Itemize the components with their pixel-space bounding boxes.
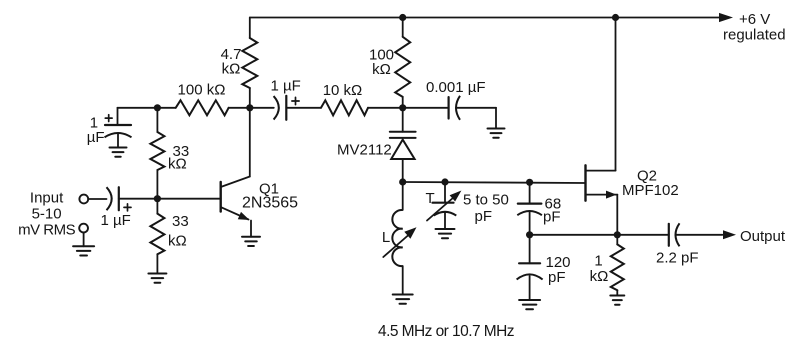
svg-text:kΩ: kΩ xyxy=(590,268,609,285)
ground 120 pF xyxy=(519,300,540,309)
resistor 33 kohm upper xyxy=(150,108,164,199)
plus sign coupling cap xyxy=(292,97,299,104)
svg-text:1 µF: 1 µF xyxy=(271,78,301,95)
capacitor 1 uF input xyxy=(107,187,119,210)
svg-text:5-10: 5-10 xyxy=(32,206,62,223)
svg-text:L: L xyxy=(382,229,390,246)
ground trimmer xyxy=(436,229,455,238)
junction varactor bias node xyxy=(399,104,406,111)
Q2 drain lead xyxy=(586,18,616,171)
svg-text:Input: Input xyxy=(30,190,64,207)
ground bypass cap xyxy=(110,148,127,157)
junction bias node xyxy=(154,104,161,111)
label 68 pF xyxy=(543,195,561,225)
capacitor 1 uF coupling xyxy=(274,96,287,120)
junction tank-trimmer xyxy=(441,178,448,185)
resistor 1 kohm xyxy=(611,235,624,296)
plus sign input cap xyxy=(124,204,131,211)
label L xyxy=(382,229,390,246)
wire collector node to coupling cap xyxy=(250,107,274,109)
wire 0.001uF to ground xyxy=(456,108,496,129)
svg-text:MPF102: MPF102 xyxy=(622,182,679,199)
wire 10k to varactor node xyxy=(368,107,403,109)
junction rail-100k xyxy=(399,14,406,21)
svg-text:1: 1 xyxy=(594,253,602,270)
junction base node xyxy=(154,195,161,202)
label 1 uF bypass xyxy=(87,115,105,147)
junction tank node xyxy=(399,178,406,185)
label 100 kohm horizontal xyxy=(178,82,226,99)
svg-text:kΩ: kΩ xyxy=(222,61,241,78)
+6V arrow terminal xyxy=(719,13,733,22)
wire bias node to bypass cap xyxy=(118,108,158,125)
label 4.7 kohm xyxy=(221,46,242,78)
label Q2 xyxy=(637,167,657,184)
svg-text:kΩ: kΩ xyxy=(168,233,187,250)
svg-text:0.001 µF: 0.001 µF xyxy=(426,79,486,96)
svg-text:5 to 50: 5 to 50 xyxy=(463,191,509,208)
label Q1 xyxy=(259,181,279,198)
arrow inductor adjust xyxy=(383,227,416,257)
label Output xyxy=(740,228,786,245)
label 33 kohm upper xyxy=(168,143,189,173)
svg-text:pF: pF xyxy=(548,269,566,286)
label Input 5-10 mV RMS xyxy=(18,190,75,239)
svg-text:+6 V: +6 V xyxy=(739,11,770,28)
label 1 uF input xyxy=(101,212,131,229)
svg-text:100 kΩ: 100 kΩ xyxy=(178,82,226,99)
label +6 V xyxy=(739,11,770,28)
junction 68-120 node xyxy=(526,231,533,238)
ground 33 kohm xyxy=(148,274,166,283)
input terminal bottom xyxy=(79,224,88,233)
svg-text:MV2112: MV2112 xyxy=(337,142,392,159)
resistor 10 kohm xyxy=(321,100,368,115)
Q1 collector lead xyxy=(221,108,250,187)
junction rail-drain xyxy=(612,14,619,21)
label 4.5 MHz or 10.7 MHz xyxy=(378,323,514,340)
label 1 uF coupling xyxy=(271,78,301,95)
resistor 100 kohm (varactor bias) xyxy=(395,18,410,108)
resistor 100 kohm (feedback) xyxy=(176,100,229,115)
svg-text:mV RMS: mV RMS xyxy=(18,221,75,238)
svg-text:kΩ: kΩ xyxy=(372,61,391,78)
label MV2112 xyxy=(337,142,392,159)
svg-text:regulated: regulated xyxy=(723,27,786,44)
wire bias to 100k xyxy=(157,107,175,109)
capacitor 2.2 pF xyxy=(669,223,680,246)
svg-text:Output: Output xyxy=(740,228,786,245)
trimmer capacitor T 5-50 pF xyxy=(433,182,457,229)
svg-text:pF: pF xyxy=(475,208,493,225)
arrow trimmer adjust xyxy=(427,191,461,221)
svg-text:10 kΩ: 10 kΩ xyxy=(323,82,363,99)
junction tank-68pF xyxy=(526,179,533,186)
capacitor 1 uF bypass (base bias) xyxy=(105,125,132,148)
plus sign bypass cap xyxy=(105,115,112,122)
transistor Q2 MPF102 channel bar xyxy=(584,165,586,200)
label MPF102 xyxy=(622,182,679,199)
transistor Q1 2N3565 base bar xyxy=(219,182,221,212)
label 100 kohm vertical xyxy=(369,46,394,78)
svg-text:µF: µF xyxy=(87,129,105,146)
junction source-1k node xyxy=(614,231,621,238)
svg-text:4.5 MHz or 10.7 MHz: 4.5 MHz or 10.7 MHz xyxy=(378,323,514,340)
capacitor 68 pF xyxy=(517,182,542,235)
svg-text:T: T xyxy=(426,190,435,207)
svg-text:1 µF: 1 µF xyxy=(101,212,131,229)
resistor 33 kohm lower xyxy=(150,199,164,274)
wire output node row xyxy=(530,234,669,236)
label 33 kohm lower xyxy=(168,213,189,250)
wire output cap to arrow xyxy=(676,234,723,236)
ground inductor xyxy=(393,295,413,304)
svg-text:pF: pF xyxy=(543,209,561,226)
label 1 kohm xyxy=(590,253,609,286)
ground 0.001uF xyxy=(488,129,505,138)
label 5 to 50 pF xyxy=(463,191,509,225)
wire input cap to base node xyxy=(119,198,158,200)
junction collector node xyxy=(246,104,253,111)
wire 100k to collector node xyxy=(229,107,250,109)
wire input terminal to cap xyxy=(88,198,106,200)
svg-text:2N3565: 2N3565 xyxy=(242,195,298,212)
ground 1 kohm xyxy=(610,296,624,305)
label 0.001 uF xyxy=(426,79,486,96)
ground input terminal xyxy=(73,233,94,256)
ground Q1 emitter xyxy=(242,237,260,246)
resistor 4.7 kohm xyxy=(242,18,257,108)
label T xyxy=(426,190,435,207)
svg-text:33: 33 xyxy=(172,213,189,230)
varactor diode MV2112 xyxy=(390,108,416,182)
wire +6V supply rail xyxy=(250,17,720,19)
capacitor 0.001 uF xyxy=(449,96,460,120)
svg-text:kΩ: kΩ xyxy=(168,156,187,173)
wire coupling cap to 10k xyxy=(286,107,321,109)
wire tank row xyxy=(403,182,586,183)
label 120 pF xyxy=(546,254,571,286)
wire varactor node to 0.001uF xyxy=(403,107,449,109)
output arrow terminal xyxy=(723,230,736,239)
input terminal top xyxy=(79,195,88,204)
label regulated xyxy=(723,27,786,44)
label 2N3565 xyxy=(242,195,298,212)
inductor L (variable) xyxy=(392,182,402,295)
capacitor 120 pF xyxy=(517,235,543,300)
wire base node to Q1 xyxy=(157,198,220,200)
label 10 kohm xyxy=(323,82,363,99)
label 2.2 pF xyxy=(656,250,699,267)
svg-text:2.2 pF: 2.2 pF xyxy=(656,250,699,267)
Q1 emitter lead xyxy=(221,207,251,237)
Q2 source lead xyxy=(586,191,618,235)
